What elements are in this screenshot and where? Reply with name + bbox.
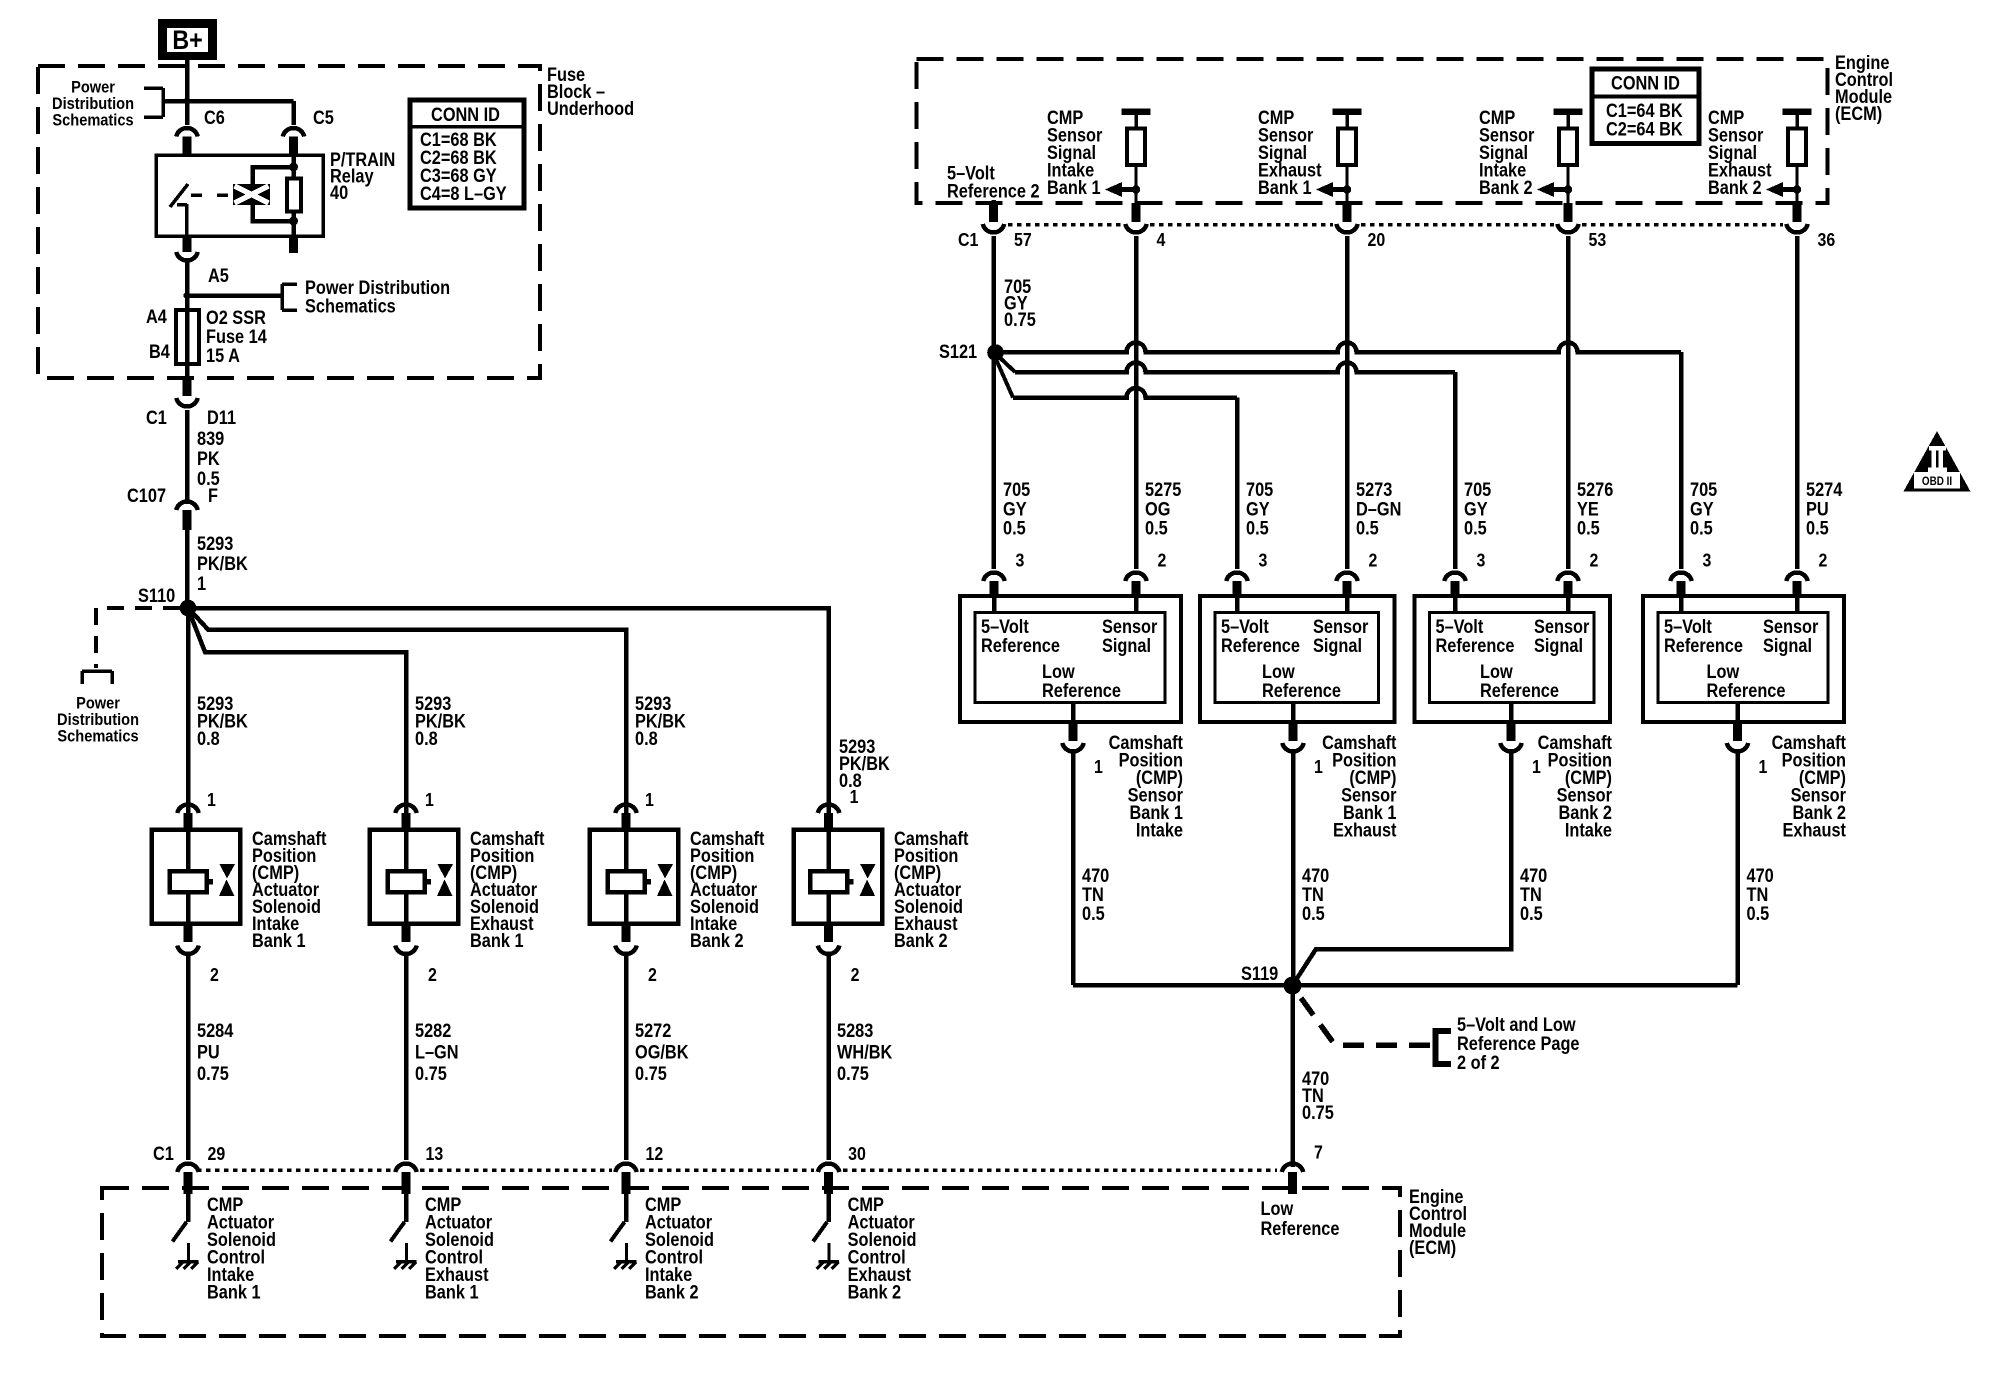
svg-text:4: 4 [1157,229,1166,250]
svg-text:0.5: 0.5 [1747,903,1770,924]
svg-text:2: 2 [1158,549,1167,570]
svg-text:A4: A4 [146,306,167,327]
svg-text:WH/BK: WH/BK [837,1042,893,1063]
svg-text:Reference: Reference [1261,1218,1340,1239]
svg-text:C2=64 BK: C2=64 BK [1606,118,1683,139]
svg-text:L–GN: L–GN [415,1042,459,1063]
svg-text:(ECM): (ECM) [1409,1237,1456,1258]
svg-text:29: 29 [208,1143,226,1164]
svg-text:0.75: 0.75 [197,1063,229,1084]
svg-text:0.5: 0.5 [1302,903,1325,924]
svg-text:Signal: Signal [1102,635,1151,656]
svg-text:C5: C5 [313,107,334,128]
svg-text:Signal: Signal [1534,635,1583,656]
svg-text:OG/BK: OG/BK [635,1042,689,1063]
svg-text:20: 20 [1368,229,1386,250]
svg-text:13: 13 [426,1143,444,1164]
svg-text:0.75: 0.75 [415,1063,447,1084]
svg-text:B4: B4 [149,341,170,362]
svg-text:1: 1 [645,789,654,810]
svg-text:Reference: Reference [1436,635,1515,656]
svg-text:F: F [208,485,218,506]
svg-text:3: 3 [1259,549,1268,570]
svg-text:7: 7 [1314,1141,1323,1162]
svg-text:1: 1 [850,786,859,807]
svg-text:PK: PK [197,448,220,469]
svg-text:0.5: 0.5 [1806,517,1829,538]
svg-text:1: 1 [425,789,434,810]
svg-text:Bank 1: Bank 1 [425,1282,479,1303]
svg-text:C1: C1 [146,407,167,428]
svg-text:2: 2 [1590,549,1599,570]
svg-text:3: 3 [1016,549,1025,570]
svg-text:0.75: 0.75 [1302,1102,1334,1123]
svg-text:Bank 1: Bank 1 [1258,177,1312,198]
svg-text:Bank 2: Bank 2 [1479,177,1533,198]
svg-text:S119: S119 [1241,963,1278,984]
svg-text:Reference: Reference [1480,680,1559,701]
svg-text:C107: C107 [127,485,166,506]
svg-text:C1: C1 [958,229,979,250]
svg-text:2 of 2: 2 of 2 [1457,1052,1500,1073]
svg-text:30: 30 [848,1143,866,1164]
svg-text:Bank 2: Bank 2 [1708,177,1762,198]
svg-text:0.5: 0.5 [1246,517,1269,538]
svg-text:Schematics: Schematics [57,727,138,745]
svg-text:2: 2 [1819,549,1828,570]
svg-text:0.75: 0.75 [635,1063,667,1084]
svg-text:Reference: Reference [1221,635,1300,656]
svg-text:Signal: Signal [1313,635,1362,656]
svg-text:0.5: 0.5 [1577,517,1600,538]
svg-text:839: 839 [197,428,224,449]
svg-text:Reference: Reference [1042,680,1121,701]
svg-text:5272: 5272 [635,1020,671,1041]
svg-text:Underhood: Underhood [547,98,634,119]
svg-text:S110: S110 [138,585,175,606]
svg-text:3: 3 [1477,549,1486,570]
svg-text:1: 1 [1314,756,1323,777]
svg-text:0.75: 0.75 [837,1063,869,1084]
svg-text:Exhaust: Exhaust [1333,820,1397,841]
svg-text:Bank 2: Bank 2 [690,930,744,951]
svg-text:5282: 5282 [415,1020,451,1041]
svg-text:A5: A5 [208,265,229,286]
svg-text:Bank 1: Bank 1 [470,930,524,951]
svg-text:5283: 5283 [837,1020,873,1041]
svg-text:0.5: 0.5 [1356,517,1379,538]
svg-text:36: 36 [1818,229,1836,250]
svg-text:C6: C6 [204,107,225,128]
svg-text:(ECM): (ECM) [1835,103,1882,124]
svg-text:Bank 2: Bank 2 [894,930,948,951]
svg-text:0.8: 0.8 [415,728,438,749]
svg-text:OBD II: OBD II [1922,475,1952,488]
svg-text:2: 2 [210,964,219,985]
svg-text:0.5: 0.5 [1520,903,1543,924]
svg-text:2: 2 [648,964,657,985]
svg-text:40: 40 [330,182,348,203]
svg-text:Exhaust: Exhaust [1782,820,1846,841]
svg-text:Schematics: Schematics [305,295,396,316]
svg-text:Bank 2: Bank 2 [848,1282,902,1303]
svg-text:1: 1 [1532,756,1541,777]
svg-text:D11: D11 [207,407,236,428]
svg-text:Reference: Reference [1707,680,1786,701]
svg-text:0.5: 0.5 [1145,517,1168,538]
svg-text:53: 53 [1589,229,1607,250]
svg-text:57: 57 [1014,229,1032,250]
svg-text:2: 2 [851,964,860,985]
svg-text:5293: 5293 [197,533,233,554]
svg-text:PU: PU [197,1042,220,1063]
svg-text:5284: 5284 [197,1020,233,1041]
svg-text:Low: Low [1261,1198,1294,1219]
svg-text:Bank 1: Bank 1 [207,1282,261,1303]
svg-text:3: 3 [1703,549,1712,570]
svg-text:0.8: 0.8 [635,728,658,749]
svg-text:2: 2 [428,964,437,985]
svg-text:Intake: Intake [1136,820,1183,841]
svg-text:1: 1 [1094,756,1103,777]
svg-text:0.5: 0.5 [1690,517,1713,538]
svg-text:1: 1 [197,573,206,594]
svg-text:Bank 1: Bank 1 [1047,177,1101,198]
svg-text:Reference: Reference [1262,680,1341,701]
svg-text:0.5: 0.5 [1003,517,1026,538]
svg-text:0.8: 0.8 [197,728,220,749]
svg-text:Bank 2: Bank 2 [645,1282,699,1303]
svg-text:Reference: Reference [1664,635,1743,656]
svg-text:1: 1 [207,789,216,810]
svg-text:CONN ID: CONN ID [431,104,500,125]
svg-text:B+: B+ [172,25,202,55]
svg-text:15 A: 15 A [206,345,240,366]
svg-text:Schematics: Schematics [52,111,133,129]
svg-text:C1: C1 [153,1143,174,1164]
svg-text:1: 1 [1759,756,1768,777]
svg-text:2: 2 [1369,549,1378,570]
svg-text:Signal: Signal [1763,635,1812,656]
svg-text:0.5: 0.5 [1464,517,1487,538]
svg-text:Bank 1: Bank 1 [252,930,306,951]
svg-text:PK/BK: PK/BK [197,553,248,574]
svg-text:Reference 2: Reference 2 [947,180,1040,201]
svg-text:Intake: Intake [1565,820,1612,841]
svg-text:C4=8 L–GY: C4=8 L–GY [420,183,507,204]
svg-text:12: 12 [646,1143,664,1164]
svg-text:0.5: 0.5 [1082,903,1105,924]
svg-text:S121: S121 [939,341,977,362]
svg-text:CONN ID: CONN ID [1611,72,1680,93]
svg-text:Reference: Reference [981,635,1060,656]
svg-text:0.75: 0.75 [1004,309,1036,330]
